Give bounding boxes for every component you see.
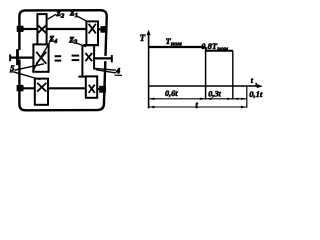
- svg-text:,: ,: [255, 78, 258, 86]
- svg-text:T: T: [140, 33, 146, 43]
- svg-text:0,1t: 0,1t: [249, 89, 263, 99]
- svg-text:0,3t: 0,3t: [208, 89, 221, 98]
- svg-text:0,6t: 0,6t: [165, 89, 178, 98]
- svg-text:4: 4: [115, 67, 120, 76]
